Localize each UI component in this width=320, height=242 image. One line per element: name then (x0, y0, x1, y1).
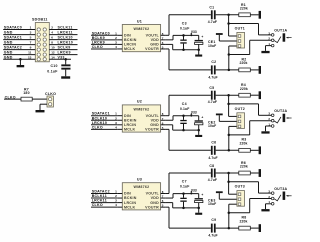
wire R4 to ground bar (250, 94, 258, 96)
DAC IC U3 body WM8762 (122, 183, 160, 210)
U1 pin 3 LRCIN stub (117, 43, 122, 45)
svg-text:5: 5 (30, 36, 32, 40)
wire OUT1 pin 3 to bottom node (229, 45, 237, 47)
OUT3A jack arrow (286, 195, 289, 197)
capacitor C10 (61, 64, 70, 66)
capacitor C9 4.7uF series (211, 224, 213, 233)
svg-text:BCKIN: BCKIN (124, 38, 137, 42)
svg-text:OUT1: OUT1 (235, 26, 245, 30)
svg-text:VDD: VDD (151, 38, 159, 42)
ground below decoupling (195, 135, 202, 137)
ground below OUT3A (261, 209, 269, 211)
junction bottom node (228, 227, 231, 230)
svg-text:LRCK9: LRCK9 (92, 40, 105, 44)
wire into OUT2 pin 1 (229, 115, 237, 117)
svg-text:LRCK11: LRCK11 (58, 31, 73, 35)
capacitor C7 0.1uF decoupling (183, 194, 185, 198)
svg-text:9: 9 (30, 46, 32, 50)
wire lower node to OUT1A pin 2 (229, 54, 250, 56)
U1 pin 1 DIN stub (117, 34, 122, 36)
junction bottom node (228, 149, 231, 152)
svg-text:LRCK10: LRCK10 (92, 121, 107, 125)
svg-text:VOUTR: VOUTR (145, 205, 159, 209)
wire bottom rail to C9 (169, 227, 211, 229)
junction bottom node (228, 69, 231, 72)
U2 pin 6 GND stub (161, 124, 166, 126)
svg-text:SDATAC0: SDATAC0 (4, 26, 22, 30)
connector OUT3A pin circles (271, 192, 274, 205)
capacitor C8 4.7uF series (211, 169, 213, 178)
capacitor C3 0.1uF decoupling (183, 35, 185, 39)
junction C dec top (182, 115, 185, 118)
ground below decoupling (195, 213, 202, 215)
wire into OUT1 pin 1 (229, 35, 237, 37)
wire VDD of U2 to top rail (166, 119, 173, 121)
svg-text:BCKIN: BCKIN (124, 196, 137, 200)
U1 pin 4 MCLK stub (117, 48, 122, 50)
svg-text:C2: C2 (211, 60, 216, 64)
DAC IC U2 body WM8762 (122, 105, 160, 132)
svg-text:1: 1 (115, 190, 117, 194)
resistor R4 220k (239, 93, 251, 97)
svg-text:SDATAC2: SDATAC2 (4, 46, 22, 50)
wire C1 to junction (216, 14, 239, 16)
wire R3 to ground bar (250, 149, 258, 151)
svg-text:U2: U2 (137, 100, 142, 104)
svg-text:10uF: 10uF (208, 124, 216, 128)
U3 pin 3 LRCIN stub (117, 202, 122, 204)
junction CE bottom (197, 129, 200, 132)
svg-text:CLKO: CLKO (92, 203, 103, 207)
svg-text:VOUTR: VOUTR (145, 128, 159, 132)
svg-text:BCKIN: BCKIN (124, 118, 137, 122)
svg-text:C4: C4 (182, 102, 187, 106)
svg-text:10uF: 10uF (208, 44, 216, 48)
svg-text:CLKO: CLKO (92, 45, 103, 49)
connector OUT2A pin circles (271, 114, 274, 127)
wire input net LRCK11 to U3 (91, 202, 117, 204)
svg-text:GND: GND (4, 41, 13, 45)
OUT3A jack sleeve bar (283, 192, 286, 200)
connector OUT3 body (237, 191, 245, 207)
capacitor CE1 electrolytic (198, 35, 200, 40)
svg-text:GND: GND (150, 43, 159, 47)
svg-text:MCLK: MCLK (124, 128, 136, 132)
svg-text:WM8762: WM8762 (134, 185, 150, 189)
svg-text:220k: 220k (240, 219, 248, 223)
wire R1 to ground bar (250, 14, 258, 16)
svg-text:0.1uF: 0.1uF (180, 107, 189, 111)
ground below decoupling (195, 55, 202, 57)
svg-text:SDATAC1: SDATAC1 (92, 112, 110, 116)
U3 pin 6 GND stub (161, 202, 166, 204)
wire OUT3 pin 3 to bottom node (229, 203, 237, 205)
svg-text:C9: C9 (211, 218, 216, 222)
wire ground to OUT3 pin 2 (218, 193, 220, 199)
junction top node (227, 172, 230, 175)
svg-text:0.1uF: 0.1uF (180, 26, 189, 30)
svg-text:+: + (201, 115, 203, 119)
wire header pin 11 (GND) (3, 54, 35, 56)
svg-text:CLKO: CLKO (45, 92, 56, 96)
ground bar above OUT1 pin 2 (216, 33, 223, 35)
wire VOUTR of U1 down to bottom rail (166, 48, 169, 50)
U3 pin 1 DIN stub (117, 193, 122, 195)
wire header pin 3 (GND) (3, 34, 35, 36)
wire input net BCLK11 to U3 (91, 197, 117, 199)
wire top rail to C1 (169, 14, 211, 16)
svg-text:LRCIN: LRCIN (124, 123, 136, 127)
svg-text:3: 3 (115, 121, 117, 125)
svg-text:220k: 220k (240, 165, 248, 169)
ground below CLKO header (36, 110, 45, 112)
wire top rail to C5 (169, 94, 211, 96)
OUT2A jack arrow (286, 117, 289, 119)
svg-text:2: 2 (51, 26, 53, 30)
svg-text:C6: C6 (211, 140, 216, 144)
wire header pin 13 (GND) (3, 58, 35, 60)
wire rail to ground (198, 208, 200, 213)
wire R7 to CLKO header (32, 98, 47, 100)
junction mid node (227, 103, 230, 106)
wire header pin 5 (SDATAC1) (3, 39, 35, 41)
wire ground to OUT1 pin 2 (218, 35, 220, 41)
junction C dec top (182, 192, 185, 195)
svg-text:11: 11 (28, 51, 32, 55)
wire GND of U3 to bottom rail (166, 202, 173, 204)
connector CLKO body (47, 96, 53, 107)
wire rail to ground (198, 130, 200, 135)
wire input net BCLK9 to U1 (91, 39, 117, 41)
junction mid node (227, 180, 230, 183)
OUT2A jack tip contact (274, 117, 281, 123)
svg-text:BCLK9: BCLK9 (92, 36, 105, 40)
wire input net SDATAC0 to U1 (91, 34, 117, 36)
svg-text:GND: GND (4, 55, 13, 59)
svg-text:V33: V33 (58, 55, 65, 59)
svg-text:VDD: VDD (151, 196, 159, 200)
svg-text:8: 8 (51, 41, 53, 45)
wire bottom rail to C6 (169, 149, 211, 151)
wire header pin 1 (SDATAC0) (3, 29, 35, 31)
wire R8 to ground bar (250, 227, 258, 229)
svg-text:CLKO: CLKO (92, 125, 103, 129)
svg-text:4: 4 (115, 203, 117, 207)
wire header pin 6 (SCLK10) (49, 39, 77, 41)
junction C dec bottom (182, 207, 185, 210)
svg-text:4.7uF: 4.7uF (208, 178, 217, 182)
junction on GND pin 13 wire (19, 58, 22, 61)
U1 pin 6 GND stub (161, 43, 166, 45)
wire VOUTR of U2 down to bottom rail (166, 128, 169, 130)
svg-text:LRCK9: LRCK9 (58, 51, 71, 55)
svg-text:1: 1 (30, 26, 32, 30)
wire header pin 4 (LRCK11) (49, 34, 77, 36)
wire header pin 9 (SDATAC2) (3, 49, 35, 51)
svg-text:2: 2 (115, 116, 117, 120)
capacitor C6 4.7uF series (211, 146, 213, 155)
wire input net BCLK10 to U2 (91, 119, 117, 121)
svg-text:OUT3: OUT3 (235, 185, 245, 189)
wire top node down (228, 173, 230, 194)
OUT3A jack tip contact (274, 195, 281, 201)
U2 pin 8 VOUTL stub (161, 115, 166, 117)
wire header pin 8 (LRCK10) (49, 44, 77, 46)
U2 pin 5 VOUTR stub (161, 128, 166, 130)
wire to ground below header (19, 59, 21, 65)
wire input net LRCK9 to U1 (91, 43, 117, 45)
svg-text:LRCK11: LRCK11 (92, 199, 107, 203)
wire lower node to OUT3A pin 2 (229, 212, 250, 214)
svg-text:10uF: 10uF (208, 202, 216, 206)
wire GND of U2 to bottom rail (166, 124, 173, 126)
ground bar right of R4 (259, 91, 261, 99)
wire GND of U1 to bottom rail (166, 43, 173, 45)
U3 pin 8 VOUTL stub (161, 193, 166, 195)
svg-text:SDOB11: SDOB11 (32, 18, 48, 22)
U3 pin 5 VOUTR stub (161, 206, 166, 208)
svg-text:4: 4 (115, 45, 117, 49)
wire header pin 7 (GND) (3, 44, 35, 46)
wire input net CLKO to U3 (91, 206, 117, 208)
svg-text:4.7uF: 4.7uF (208, 100, 217, 104)
junction lower node (228, 211, 231, 214)
svg-text:VDD: VDD (151, 118, 159, 122)
wire header pin 14 (V33) (49, 58, 71, 60)
svg-text:220k: 220k (240, 6, 248, 10)
svg-text:1: 1 (115, 112, 117, 116)
svg-text:LRCIN: LRCIN (124, 201, 136, 205)
wire VOUTL of U3 up to top rail (166, 193, 169, 195)
U1 pin 5 VOUTR stub (161, 48, 166, 50)
wire header pin 10 (SCLK9) (49, 49, 77, 51)
svg-text:4.7uF: 4.7uF (208, 20, 217, 24)
resistor R3 220k (239, 148, 251, 152)
ground bar right of R2 (259, 66, 261, 74)
svg-text:V33: V33 (191, 30, 197, 34)
junction lower node (228, 53, 231, 56)
svg-text:GND: GND (150, 201, 159, 205)
wire CLKO to R7 (4, 98, 21, 100)
ground bar right of R1 (259, 11, 261, 19)
ground bar above OUT3 pin 2 (216, 191, 223, 193)
svg-text:DIN: DIN (124, 192, 131, 196)
svg-text:180: 180 (23, 91, 30, 95)
junction lower node (228, 134, 231, 137)
resistor R1 220k (239, 13, 251, 17)
svg-text:1: 1 (115, 31, 117, 35)
junction CE bottom (197, 48, 200, 51)
ground bar right of R6 (259, 169, 261, 177)
svg-text:6: 6 (51, 36, 53, 40)
svg-text:4.7uF: 4.7uF (208, 156, 217, 160)
svg-text:3: 3 (115, 199, 117, 203)
svg-text:U1: U1 (137, 19, 142, 23)
svg-text:13: 13 (28, 55, 32, 59)
V33 supply arrow (190, 114, 192, 116)
wire VOUTL of U1 up to top rail (166, 34, 169, 36)
capacitor C4 0.1uF decoupling (183, 116, 185, 120)
U1 pin 2 BCKIN stub (117, 39, 122, 41)
svg-text:C1: C1 (209, 6, 214, 10)
svg-text:DIN: DIN (124, 114, 131, 118)
connector SDOB11 body (35, 23, 49, 62)
wire V33 to C10 (65, 59, 67, 64)
svg-text:DIN: DIN (124, 33, 131, 37)
ground below OUT2A (261, 131, 269, 133)
wire bottom rail to C2 (169, 69, 211, 71)
wire top node down (228, 15, 230, 36)
svg-text:WM8762: WM8762 (134, 27, 150, 31)
svg-text:220k: 220k (240, 61, 248, 65)
svg-text:SCLK11: SCLK11 (58, 26, 73, 30)
capacitor C1 4.7uF series (211, 10, 213, 19)
svg-text:C7: C7 (182, 180, 187, 184)
svg-text:C8: C8 (209, 164, 214, 168)
wire mid node to OUT3A pin 3 (229, 181, 259, 183)
wire OUT3A pin 1 to ground (266, 203, 272, 205)
svg-text:4: 4 (115, 125, 117, 129)
svg-text:3: 3 (30, 31, 32, 35)
svg-text:SDATAC2: SDATAC2 (92, 190, 110, 194)
svg-text:U3: U3 (137, 178, 142, 182)
svg-text:4.7uF: 4.7uF (208, 75, 217, 79)
wire top node down (228, 95, 230, 116)
svg-text:+: + (201, 35, 203, 39)
connector OUT1 body (237, 32, 245, 48)
wire C8 to junction (216, 172, 239, 174)
svg-text:2: 2 (115, 194, 117, 198)
svg-text:VOUTL: VOUTL (146, 33, 160, 37)
svg-text:SDATAC1: SDATAC1 (4, 36, 22, 40)
wire OUT1A pin 1 to ground (266, 45, 272, 47)
capacitor C2 4.7uF series (211, 65, 213, 74)
svg-text:220k: 220k (240, 87, 248, 91)
svg-text:VOUTL: VOUTL (146, 114, 160, 118)
svg-text:LRCK10: LRCK10 (58, 41, 73, 45)
junction mid node (227, 22, 230, 25)
U1 pin 8 VOUTL stub (161, 34, 166, 36)
svg-text:V33: V33 (191, 111, 197, 115)
wire C10 to ground (65, 70, 67, 77)
svg-text:BCLK10: BCLK10 (92, 116, 107, 120)
svg-text:WM8762: WM8762 (134, 107, 150, 111)
svg-text:GND: GND (4, 31, 13, 35)
ground below C10 (61, 76, 70, 78)
U1 pin 7 VDD stub (161, 39, 166, 41)
wire mid node to OUT1A pin 3 (229, 23, 259, 25)
wire rail to ground (198, 50, 200, 55)
ground bar right of R3 (259, 146, 261, 154)
svg-text:220k: 220k (240, 142, 248, 146)
junction CE bottom (197, 207, 200, 210)
svg-text:C10: C10 (51, 64, 58, 68)
wire VDD of U1 to top rail (166, 39, 173, 41)
wire input net LRCK10 to U2 (91, 124, 117, 126)
wire OUT2A pin 1 to ground (266, 125, 272, 127)
svg-text:SCLK10: SCLK10 (58, 36, 73, 40)
resistor R8 220k (239, 226, 251, 230)
junction C dec bottom (182, 48, 185, 51)
U2 pin 3 LRCIN stub (117, 124, 122, 126)
wire ground to OUT2 pin 2 (218, 115, 220, 121)
wire R6 to ground bar (250, 172, 258, 174)
svg-text:BCLK11: BCLK11 (92, 194, 107, 198)
junction on V33 pin 14 wire (64, 58, 67, 61)
U2 pin 2 BCKIN stub (117, 119, 122, 121)
svg-text:10: 10 (51, 46, 55, 50)
svg-text:4: 4 (51, 31, 53, 35)
connector OUT2 body (237, 113, 245, 129)
resistor R2 220k (239, 68, 251, 72)
U3 pin 4 MCLK stub (117, 206, 122, 208)
svg-text:4.7uF: 4.7uF (208, 234, 217, 238)
wire top rail to C8 (169, 172, 211, 174)
V33 supply arrow (190, 192, 192, 194)
wire input net CLKO to U2 (91, 128, 117, 130)
svg-text:GND: GND (4, 51, 13, 55)
svg-text:LRCIN: LRCIN (124, 43, 136, 47)
capacitor CE2 electrolytic (198, 116, 200, 121)
U2 pin 4 MCLK stub (117, 128, 122, 130)
wire input net CLKO to U1 (91, 48, 117, 50)
U3 pin 7 VDD stub (161, 197, 166, 199)
OUT1A jack tip contact (274, 37, 281, 43)
junction C dec top (182, 34, 185, 37)
U2 pin 7 VDD stub (161, 119, 166, 121)
svg-text:VOUTR: VOUTR (145, 47, 159, 51)
wire OUT2 pin 3 to bottom node (229, 125, 237, 127)
DAC IC U1 body WM8762 (122, 25, 160, 52)
svg-text:3: 3 (115, 40, 117, 44)
wire input net SDATAC2 to U3 (91, 193, 117, 195)
wire lower node to OUT2A pin 2 (229, 134, 250, 136)
svg-text:MCLK: MCLK (124, 205, 136, 209)
svg-text:MCLK: MCLK (124, 47, 136, 51)
svg-text:VOUTL: VOUTL (146, 192, 160, 196)
wire VOUTL of U2 up to top rail (166, 115, 169, 117)
svg-text:OUT2: OUT2 (235, 107, 245, 111)
svg-text:C3: C3 (182, 21, 187, 25)
wire header pin 2 (SCLK11) (49, 29, 77, 31)
connector OUT1A pin circles (271, 34, 274, 47)
V33 supply arrow (190, 34, 192, 36)
U3 pin 2 BCKIN stub (117, 197, 122, 199)
wire VDD of U3 to top rail (166, 197, 173, 199)
wire input net SDATAC1 to U2 (91, 115, 117, 117)
OUT1A jack arrow (286, 37, 289, 39)
junction top node (227, 94, 230, 97)
svg-text:SDATAC0: SDATAC0 (92, 31, 110, 35)
wire R2 to ground bar (250, 69, 258, 71)
ground bar above OUT2 pin 2 (216, 114, 223, 116)
ground bar right of R8 (259, 224, 261, 232)
wire CLKO header pin 2 to ground (40, 103, 47, 105)
svg-text:GND: GND (150, 123, 159, 127)
wire header pin 12 (LRCK9) (49, 54, 77, 56)
resistor R7 (21, 97, 32, 101)
svg-text:OUT2A: OUT2A (274, 109, 287, 113)
OUT2A jack sleeve bar (283, 114, 286, 122)
ground below header (17, 65, 25, 67)
resistor R6 220k (239, 171, 251, 175)
junction C dec bottom (182, 129, 185, 132)
svg-text:+: + (201, 193, 203, 197)
svg-text:2: 2 (115, 36, 117, 40)
wire C6 to R3 (216, 149, 239, 151)
svg-text:0.1uF: 0.1uF (180, 185, 189, 189)
junction top node (227, 14, 230, 16)
